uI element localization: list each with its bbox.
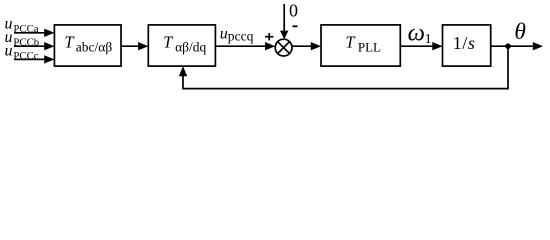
label u_PCCc — [5, 43, 39, 62]
svg-text:1/s: 1/s — [453, 33, 476, 53]
node junction dot on output — [505, 43, 511, 49]
label omega_1 — [408, 19, 432, 47]
svg-text:1: 1 — [425, 32, 432, 47]
wire input b with arrowhead — [14, 45, 46, 47]
wire input c with arrowhead — [14, 58, 46, 60]
svg-text:θ: θ — [514, 19, 526, 45]
wire node 0 down to summing junction with arrowhead — [283, 4, 285, 33]
wire output with arrowhead — [491, 45, 535, 47]
wire feedback from output node to block2 bottom with arrowhead — [183, 46, 508, 88]
wire input a with arrowhead — [14, 32, 46, 34]
label u_PCCb — [5, 29, 40, 48]
plus sign at summing junction input — [265, 33, 273, 40]
svg-text:αβ/dq: αβ/dq — [175, 39, 206, 54]
svg-text:0: 0 — [289, 1, 298, 21]
wire T_PLL to integrator with arrowhead — [400, 45, 434, 47]
label u_PCCa — [5, 16, 39, 35]
svg-text:u: u — [220, 25, 228, 42]
block integrator 1/s — [443, 25, 491, 66]
block T_PLL — [321, 25, 400, 66]
svg-text:pccq: pccq — [228, 29, 254, 44]
block T_alphabeta/dq — [148, 25, 215, 66]
summing junction circle with X — [275, 39, 292, 56]
svg-text:u: u — [5, 43, 13, 60]
block T_abc/alphabeta — [54, 25, 121, 66]
svg-text:ω: ω — [408, 19, 425, 46]
minus sign at summing junction top input — [293, 25, 298, 27]
wire block2 to summing junction with arrowhead — [215, 45, 267, 47]
wire summing junction to T_PLL with arrowhead — [292, 45, 313, 47]
label u_pccq — [220, 25, 254, 43]
svg-text:abc/αβ: abc/αβ — [76, 39, 113, 54]
wire block1 to block2 with arrowhead — [121, 45, 140, 47]
svg-text:PLL: PLL — [358, 39, 381, 54]
